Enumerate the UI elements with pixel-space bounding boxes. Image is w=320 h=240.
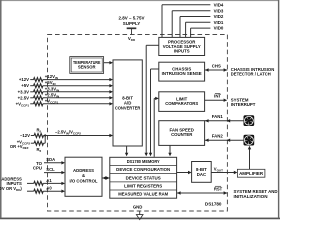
- wire VID2: [180, 17, 210, 38]
- pin label A0: [46, 186, 52, 191]
- svg-text:+5V: +5V: [21, 83, 29, 88]
- svg-text:R5: R5: [36, 127, 41, 133]
- svg-text:VOUT: VOUT: [214, 166, 223, 172]
- voltage input label row5: [16, 101, 30, 107]
- svg-text:VID3: VID3: [214, 8, 224, 13]
- block ADDRESS & I/O CONTROL: [65, 157, 102, 196]
- wire DAC to amplifier: [211, 171, 237, 174]
- svg-text:CPU: CPU: [33, 166, 42, 171]
- wire temp sensor to ADC: [104, 61, 113, 64]
- wire chassis box to memory: [149, 69, 159, 156]
- DS1780 label: [205, 202, 222, 207]
- supply label 2.8V-5.75V: [118, 16, 144, 26]
- border frame: [0, 0, 280, 218]
- label SYSTEM INTERRUPT: [231, 98, 256, 108]
- svg-text:INITIALIZATION: INITIALIZATION: [234, 194, 268, 199]
- svg-text:AMPLIFIER: AMPLIFIER: [239, 171, 263, 176]
- net label row2: [45, 80, 56, 86]
- svg-text:CHS: CHS: [212, 63, 221, 68]
- wire SCL: [44, 171, 65, 174]
- wire memory to limit comparators: [154, 97, 159, 157]
- arrow into ADC row3: [109, 90, 113, 93]
- pin label INT (overline): [214, 93, 221, 98]
- arrow into ADC row5: [109, 102, 113, 105]
- svg-text:MEASURED VALUE RAM: MEASURED VALUE RAM: [118, 192, 168, 197]
- wire address control to memory (bidirectional): [102, 176, 110, 179]
- resistor R6: [31, 141, 45, 145]
- wire fan counter to memory: [168, 145, 171, 156]
- svg-text:–12V: –12V: [20, 133, 30, 138]
- net label -2.5VIN/VCCP2: [55, 129, 81, 135]
- block CHASSIS INTRUSION SENSE: [159, 62, 205, 81]
- label ADDRESS INPUTS (0V OR VDD): [0, 177, 22, 192]
- svg-text:DETECTOR / LATCH: DETECTOR / LATCH: [231, 72, 271, 77]
- wire memory to DAC: [177, 171, 192, 174]
- supply terminal bar: [127, 27, 137, 29]
- svg-text:VID1: VID1: [214, 20, 224, 25]
- resistor R5: [31, 134, 45, 138]
- voltage input label row4: [18, 95, 29, 100]
- pin label VID2: [214, 14, 224, 19]
- svg-text:COMPARATORS: COMPARATORS: [165, 101, 198, 106]
- pin label SCL: [46, 167, 55, 172]
- svg-text:DEVICE STATUS: DEVICE STATUS: [126, 175, 161, 180]
- label TO CPU: [33, 161, 43, 171]
- svg-text:DS1780 MEMORY: DS1780 MEMORY: [127, 159, 160, 164]
- svg-text:OR +VREF: OR +VREF: [10, 144, 29, 150]
- arrow into ADC row2: [109, 84, 113, 87]
- pin INT wire: [205, 99, 228, 102]
- net label row1: [45, 74, 58, 80]
- resistor row4: [30, 96, 110, 100]
- DS1780 chip boundary (dashed): [48, 35, 228, 212]
- wire SDA: [44, 161, 65, 164]
- wire processor box to memory: [145, 45, 159, 156]
- svg-text:+VCCP1: +VCCP1: [45, 98, 59, 104]
- svg-text:DS1780: DS1780: [205, 202, 222, 207]
- svg-text:SDA: SDA: [46, 157, 55, 162]
- svg-text:+12VIN: +12VIN: [45, 74, 58, 80]
- svg-text:SCL: SCL: [46, 167, 55, 172]
- wire ADC to memory: [125, 146, 128, 156]
- pin FAN1 wire: [205, 119, 244, 122]
- pin label A1: [46, 178, 52, 183]
- svg-text:A1: A1: [46, 178, 52, 183]
- voltage input label row1: [19, 77, 29, 82]
- pin label VID1: [214, 20, 224, 25]
- label R6: [36, 147, 41, 153]
- pin RST wire (bidirectional): [177, 191, 228, 194]
- svg-text:INPUTS: INPUTS: [174, 48, 190, 53]
- svg-text:INTRUSION SENSE: INTRUSION SENSE: [162, 71, 202, 76]
- svg-text:VID0: VID0: [214, 26, 224, 31]
- wire VID4: [162, 5, 210, 38]
- wire VID1: [186, 22, 211, 37]
- svg-text:+12V: +12V: [19, 77, 29, 82]
- voltage input label row3: [18, 89, 29, 94]
- pin label VID0: [214, 26, 224, 31]
- pin label RST (overline): [214, 186, 223, 191]
- net label VOUT: [214, 166, 223, 172]
- pin label GND: [133, 205, 143, 210]
- svg-text:I/O CONTROL: I/O CONTROL: [70, 178, 98, 183]
- wire amplifier to FAN2 fan: [248, 146, 251, 170]
- svg-text:+2.5V: +2.5V: [18, 95, 29, 100]
- wire VDD stub: [131, 28, 133, 34]
- svg-text:VID2: VID2: [214, 14, 224, 19]
- svg-text:INT: INT: [214, 94, 221, 99]
- svg-text:(0V OR VDD): (0V OR VDD): [0, 186, 22, 192]
- block PROCESSOR VOLTAGE SUPPLY INPUTS: [159, 37, 205, 55]
- svg-text:+2.5VIN: +2.5VIN: [45, 92, 59, 98]
- pin label FAN2: [212, 134, 224, 139]
- pin CHS bidirectional wire: [205, 68, 228, 71]
- svg-text:+3.3VIN: +3.3VIN: [45, 86, 59, 92]
- voltage input label +VCCP2 OR +VREF: [10, 139, 30, 149]
- fan icon FAN2: [244, 135, 255, 146]
- svg-text:+VCCP1: +VCCP1: [16, 101, 30, 107]
- svg-text:–2.5VIN/VCCP2: –2.5VIN/VCCP2: [55, 129, 81, 135]
- svg-text:DEVICE CONFIGURATION: DEVICE CONFIGURATION: [116, 167, 170, 172]
- block 8-BIT A/D CONVERTER: [113, 60, 142, 146]
- block LIMIT COMPARATORS: [159, 92, 205, 112]
- svg-text:VDD: VDD: [128, 36, 136, 42]
- wire -2.5VIN to ADC: [45, 134, 113, 137]
- svg-text:CONVERTER: CONVERTER: [115, 105, 141, 110]
- svg-text:SENSOR: SENSOR: [78, 65, 96, 70]
- label R5: [36, 127, 41, 133]
- svg-text:RST: RST: [214, 186, 223, 191]
- arrow into ADC row1: [109, 78, 113, 81]
- resistor A0: [27, 189, 65, 193]
- label SYSTEM RESET AND INITIALIZATION: [234, 189, 278, 199]
- block FAN SPEED COUNTER: [159, 121, 205, 146]
- net label row4: [45, 92, 59, 98]
- resistor row3: [30, 90, 110, 94]
- block TEMPERATURE SENSOR: [70, 57, 104, 74]
- svg-text:DAC: DAC: [197, 172, 206, 177]
- svg-text:SUPPLY: SUPPLY: [123, 21, 141, 26]
- wire VID0: [191, 28, 211, 37]
- block AMPLIFIER: [237, 169, 265, 177]
- svg-text:FAN2: FAN2: [212, 134, 224, 139]
- pin FAN2 wire: [205, 139, 244, 142]
- label CHASSIS INTRUSION DETECTOR / LATCH: [231, 67, 274, 77]
- svg-text:+3.3V: +3.3V: [18, 89, 29, 94]
- wire VID3: [172, 11, 210, 38]
- svg-text:COUNTER: COUNTER: [171, 132, 193, 137]
- block 8-BIT DAC: [192, 162, 212, 183]
- svg-text:+5VIN: +5VIN: [45, 80, 56, 86]
- ground symbol: [136, 211, 143, 220]
- resistor row2: [30, 84, 110, 88]
- pin label VID3: [214, 8, 224, 13]
- block DS1780 MEMORY (device configuration, device status, limit registers, measured value RAM): [110, 157, 177, 198]
- net label row5: [45, 98, 59, 104]
- net label row3: [45, 86, 59, 92]
- svg-text:FAN1: FAN1: [212, 114, 224, 119]
- pin label FAN1: [212, 114, 224, 119]
- pin label SDA: [46, 157, 55, 162]
- pin label CHS: [212, 63, 221, 68]
- resistor A1: [27, 181, 65, 185]
- junction -2.5VIN node: [44, 134, 46, 143]
- voltage input label -12V: [20, 133, 30, 138]
- svg-text:LIMIT REGISTERS: LIMIT REGISTERS: [124, 183, 162, 188]
- svg-text:A0: A0: [46, 186, 52, 191]
- arrow into ADC row4: [109, 96, 113, 99]
- svg-text:VID4: VID4: [214, 2, 224, 7]
- pin label VID4: [214, 2, 224, 7]
- svg-text:R6: R6: [36, 147, 41, 153]
- svg-text:GND: GND: [133, 205, 143, 210]
- fan icon FAN1: [244, 115, 255, 126]
- voltage input label row2: [21, 83, 29, 88]
- resistor row5: [30, 102, 110, 106]
- svg-text:INTERRUPT: INTERRUPT: [231, 102, 256, 107]
- resistor row1: [30, 78, 110, 82]
- pin label VDD: [128, 36, 136, 42]
